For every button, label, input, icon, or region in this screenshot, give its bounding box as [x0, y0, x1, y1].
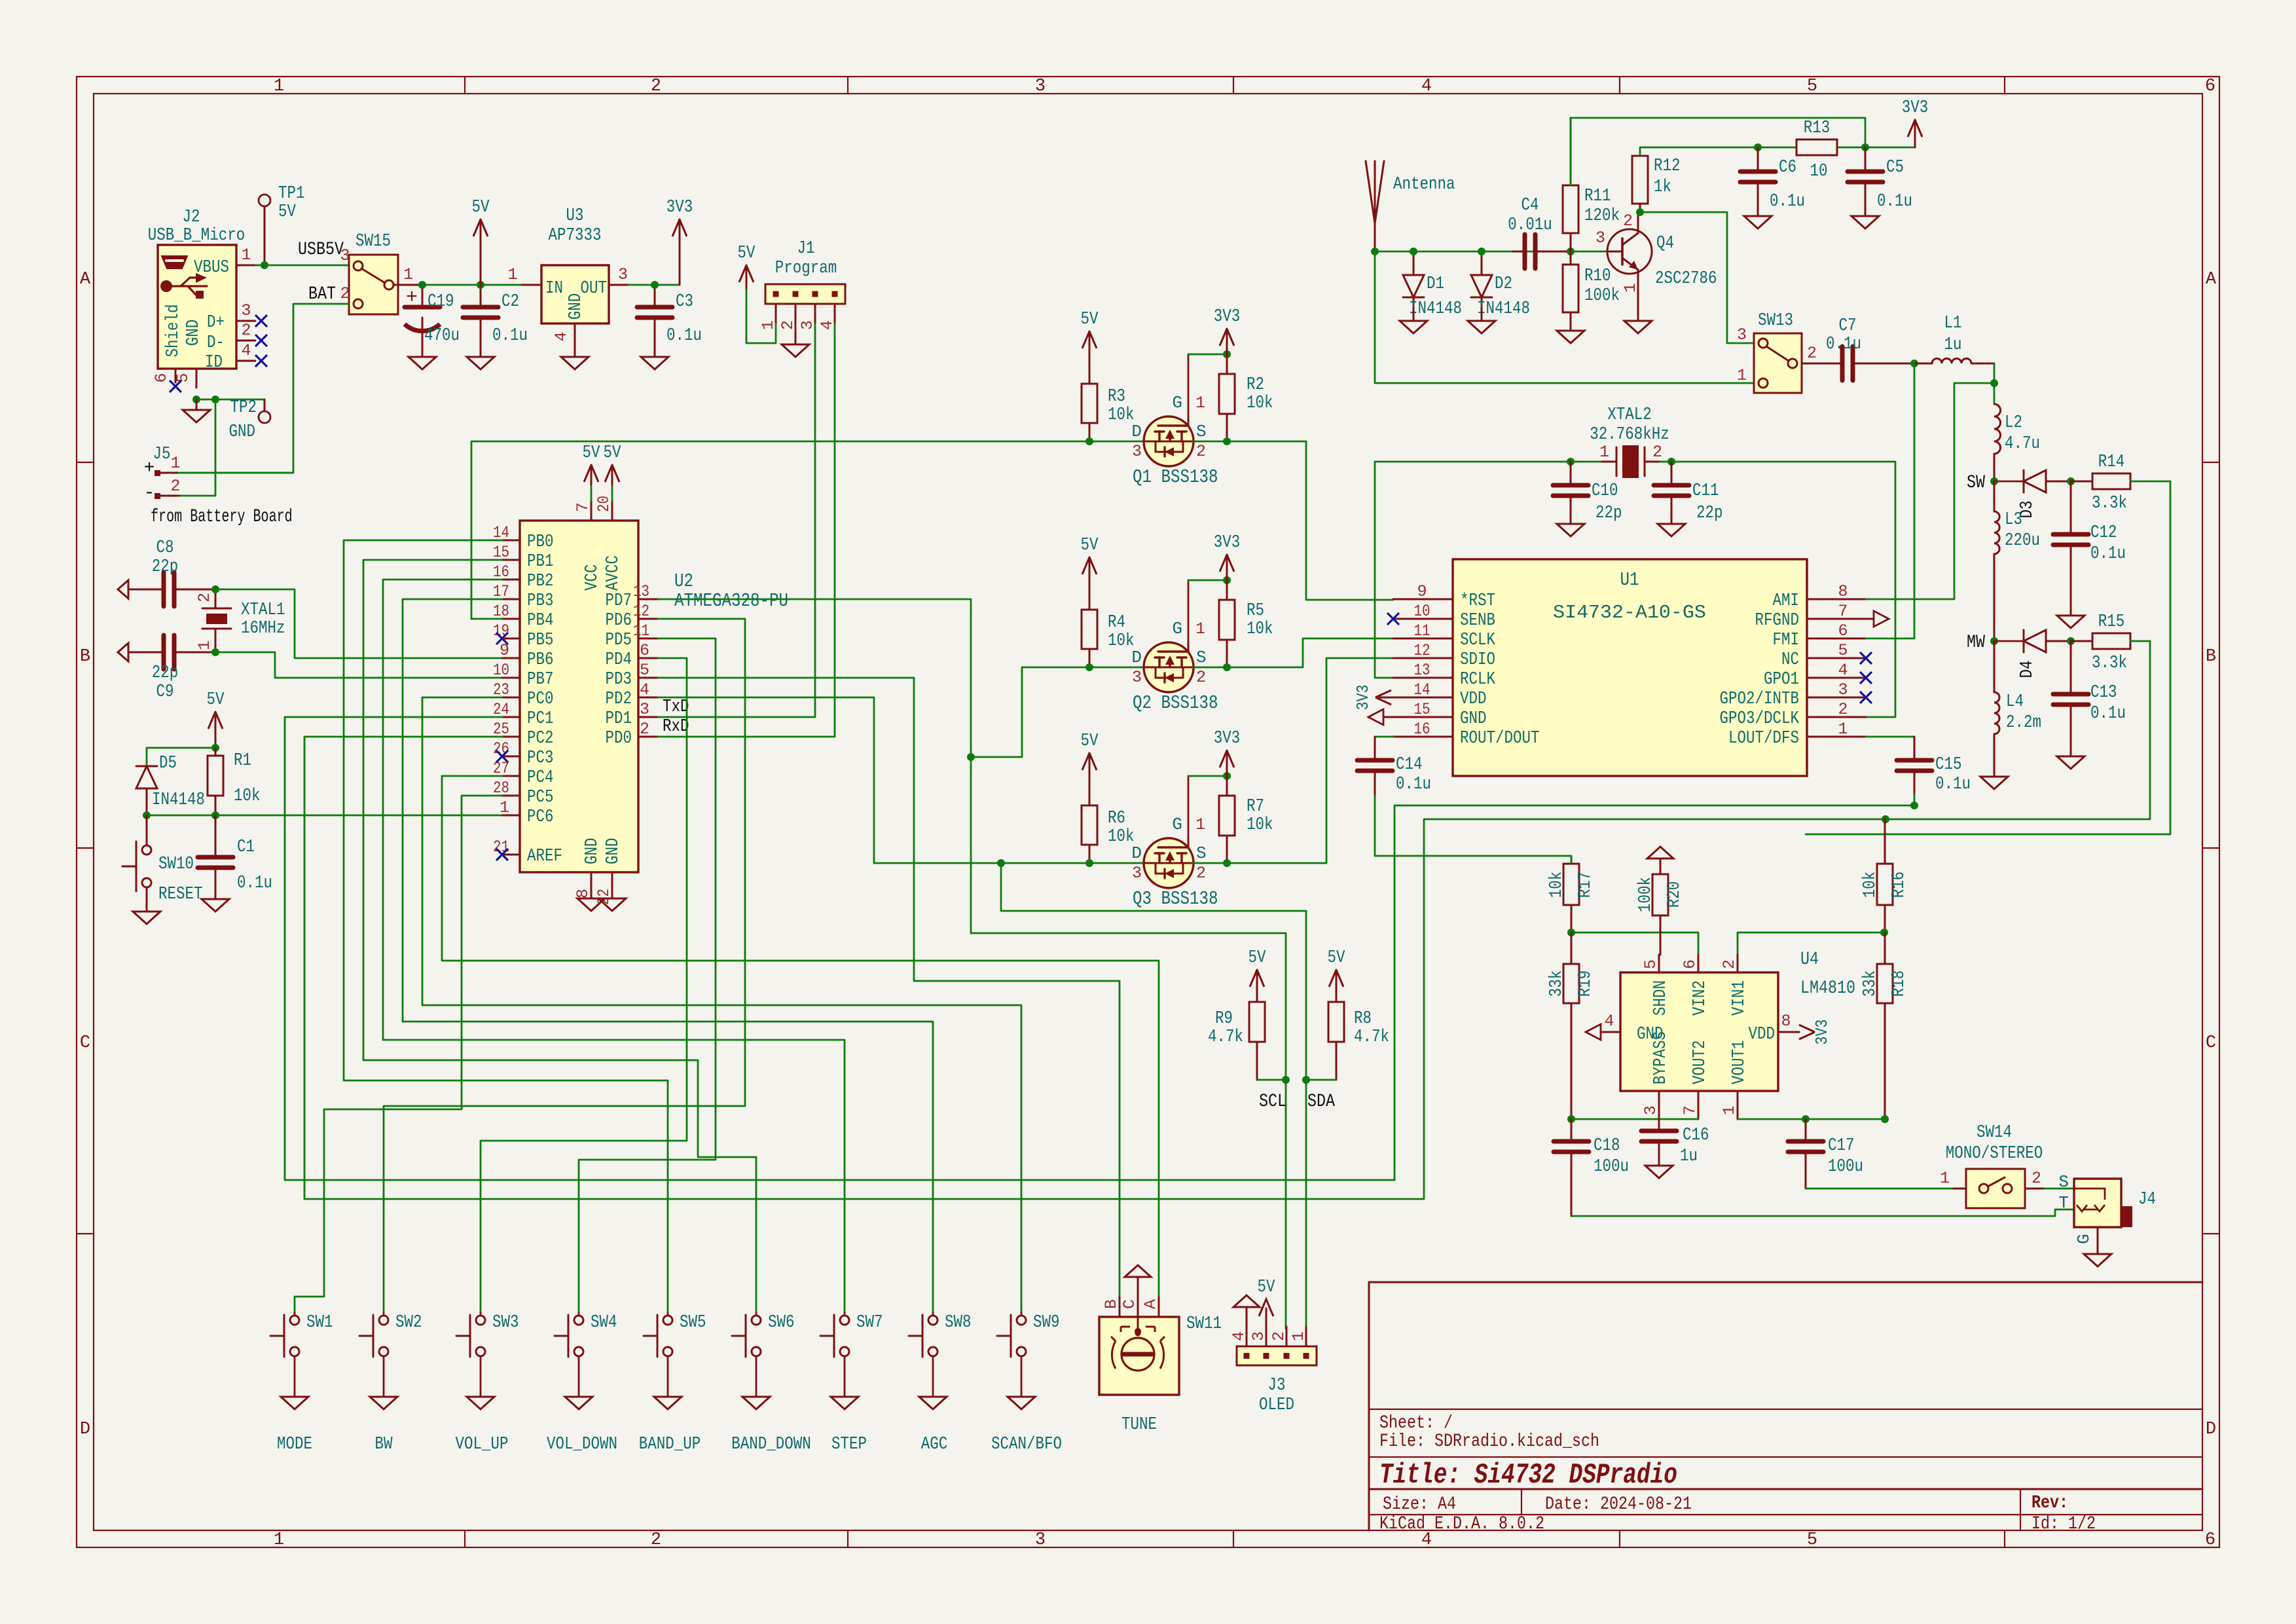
svg-text:G: G	[1172, 815, 1182, 834]
svg-text:-: -	[144, 483, 155, 504]
push button SW3	[456, 1335, 470, 1337]
wire Q3 drain rail	[874, 862, 1144, 864]
svg-text:3: 3	[640, 700, 649, 719]
U2 right pins	[638, 599, 658, 600]
svg-text:D2: D2	[1495, 274, 1512, 294]
ground under C13	[2070, 756, 2072, 758]
test point TP2	[259, 411, 270, 423]
junction at C15 bottom	[1910, 802, 1918, 809]
wire U2 PC2 to R16 line	[304, 737, 1886, 1199]
svg-text:7: 7	[1838, 602, 1848, 621]
wire XTAL1 pin2 to U2 PB6	[215, 589, 502, 658]
svg-text:4: 4	[640, 680, 649, 699]
svg-text:3V3: 3V3	[1214, 533, 1241, 553]
push button SW8	[909, 1335, 922, 1337]
wire U2 PD6 to SW2	[384, 619, 745, 1312]
svg-text:C7: C7	[1839, 316, 1857, 336]
U4 GND pin with flag	[1601, 1031, 1620, 1033]
capacitor C7	[1821, 363, 1842, 365]
wire U2 PC1 to audio L line	[285, 717, 1914, 1180]
svg-text:BW: BW	[375, 1435, 393, 1454]
svg-text:SW4: SW4	[591, 1313, 617, 1333]
svg-text:3.3k: 3.3k	[2092, 654, 2127, 673]
svg-text:G: G	[1172, 619, 1182, 638]
svg-text:C11: C11	[1692, 481, 1719, 501]
svg-text:2: 2	[1196, 668, 1206, 687]
svg-text:RCLK: RCLK	[1460, 670, 1496, 690]
wire BYPASS/VOUT2 node	[1571, 1118, 1698, 1120]
junction at R19/C18	[1567, 1115, 1575, 1123]
wire U2 PB4 to Q1 drain	[471, 618, 502, 620]
diode D5	[136, 766, 157, 767]
svg-text:8: 8	[1838, 582, 1848, 601]
svg-text:SDA: SDA	[1307, 1092, 1335, 1112]
svg-text:6: 6	[152, 373, 171, 382]
junction at D1	[1410, 248, 1417, 255]
svg-text:GND: GND	[566, 293, 586, 320]
wire FMI to C7/L1 junction	[1866, 363, 1914, 638]
svg-text:12: 12	[1414, 641, 1430, 660]
wire U2 PB2 to SW7	[383, 580, 845, 1312]
wire J5 pin1 riser	[179, 472, 293, 474]
wire into SW4	[578, 1312, 580, 1316]
ground under C5	[1865, 196, 1867, 216]
svg-text:XTAL2: XTAL2	[1607, 405, 1652, 425]
wire R14 to audio line	[1806, 481, 2170, 834]
wire VCC up	[591, 485, 592, 501]
wire reset net to U2 PC6	[147, 815, 502, 817]
svg-text:1: 1	[170, 454, 180, 473]
svg-text:J5: J5	[153, 445, 171, 464]
svg-text:1: 1	[1621, 283, 1640, 293]
svg-text:3.3k: 3.3k	[2092, 494, 2127, 513]
svg-text:C18: C18	[1594, 1136, 1620, 1156]
ground under SW4	[578, 1396, 580, 1398]
capacitor C18	[1571, 1119, 1573, 1141]
capacitor C17	[1805, 1119, 1807, 1141]
svg-text:A: A	[2206, 270, 2217, 289]
svg-text:C8: C8	[156, 538, 174, 558]
svg-text:PC2: PC2	[527, 729, 554, 748]
svg-text:S: S	[1196, 843, 1207, 863]
ground under C6	[1757, 196, 1759, 216]
svg-text:5V: 5V	[1081, 310, 1099, 329]
svg-text:ID: ID	[205, 353, 223, 373]
svg-text:J1: J1	[797, 239, 815, 259]
svg-text:PC0: PC0	[527, 690, 554, 709]
svg-text:R13: R13	[1804, 119, 1831, 138]
wire SW5 to ground	[667, 1356, 669, 1397]
wire SW15 pin1 to U3 IN	[422, 284, 522, 286]
power 5V at reset	[215, 712, 217, 748]
svg-text:10: 10	[493, 661, 509, 680]
svg-text:0.1u: 0.1u	[666, 326, 702, 346]
no-connect X at GPO2	[1860, 692, 1872, 703]
svg-text:10k: 10k	[1108, 827, 1135, 847]
svg-text:U2: U2	[674, 570, 693, 592]
wire Q4 collector to SW13 pin3	[1640, 212, 1754, 343]
svg-text:L3: L3	[2005, 510, 2022, 530]
svg-text:J4: J4	[2138, 1190, 2156, 1209]
svg-text:3: 3	[1035, 77, 1046, 96]
svg-text:VIN2: VIN2	[1690, 980, 1710, 1016]
no-connect X at NC	[1860, 652, 1872, 664]
wire R12 top rail	[1640, 147, 1865, 156]
svg-text:6: 6	[1681, 959, 1700, 969]
svg-text:2: 2	[640, 720, 649, 739]
svg-text:FMI: FMI	[1773, 631, 1800, 650]
wire Q2 gate to R5	[1188, 580, 1227, 581]
capacitor C16	[1658, 1119, 1660, 1131]
svg-text:VOUT1: VOUT1	[1730, 1041, 1749, 1085]
svg-text:1k: 1k	[1654, 177, 1671, 197]
svg-text:5V: 5V	[472, 198, 490, 217]
ground under J1 pin2	[795, 333, 797, 344]
svg-text:100u: 100u	[1828, 1157, 1863, 1177]
svg-text:3V3: 3V3	[1214, 307, 1241, 327]
wire R15 to R16 line	[1886, 641, 2150, 819]
svg-text:5V: 5V	[604, 443, 622, 463]
svg-text:A: A	[80, 270, 91, 289]
U4 bottom pins	[1658, 1091, 1660, 1119]
junction at SW tap	[1990, 477, 1998, 485]
svg-text:33k: 33k	[1861, 970, 1880, 997]
svg-text:1: 1	[274, 1530, 284, 1550]
svg-text:1: 1	[274, 77, 284, 96]
junction at R2 top	[1223, 350, 1231, 358]
svg-text:1: 1	[1289, 1331, 1308, 1341]
junction at Q1 source	[1223, 437, 1231, 445]
svg-text:0.1u: 0.1u	[492, 326, 528, 346]
capacitor C10	[1570, 462, 1572, 485]
wire SW6 to ground	[756, 1356, 757, 1397]
svg-text:C12: C12	[2090, 523, 2117, 543]
svg-text:Q2 BSS138: Q2 BSS138	[1133, 692, 1218, 714]
svg-text:2: 2	[1196, 442, 1206, 461]
open end flag C8	[118, 580, 128, 599]
wire AVCC up	[611, 485, 613, 501]
wire XTAL2 pin1 rail	[1375, 461, 1601, 463]
svg-text:GPO2/INTB: GPO2/INTB	[1720, 690, 1800, 709]
ground under D2	[1481, 308, 1483, 321]
svg-text:PD0: PD0	[606, 729, 632, 748]
svg-text:6: 6	[640, 641, 649, 660]
svg-text:BAT: BAT	[308, 284, 336, 304]
junction at D2	[1478, 248, 1485, 255]
svg-text:R15: R15	[2098, 612, 2125, 632]
junction at R6 bottom	[1085, 859, 1093, 867]
svg-text:R19: R19	[1576, 970, 1595, 997]
ground under C12	[2070, 615, 2072, 617]
svg-text:PB6: PB6	[527, 650, 554, 670]
svg-text:10k: 10k	[1247, 619, 1273, 639]
svg-text:R17: R17	[1576, 872, 1595, 898]
svg-text:7: 7	[1681, 1105, 1700, 1115]
capacitor C6	[1757, 147, 1759, 172]
ground under SW6	[756, 1396, 757, 1398]
svg-text:11: 11	[1414, 621, 1430, 640]
svg-text:C17: C17	[1828, 1136, 1855, 1156]
svg-text:C: C	[1120, 1299, 1139, 1309]
svg-text:Sheet: /: Sheet: /	[1379, 1413, 1453, 1433]
svg-text:0.1u: 0.1u	[2090, 704, 2126, 724]
no-connect X at AREF	[496, 849, 508, 860]
wire Q3 drain to SDA	[1001, 863, 1306, 1329]
wire U2 PD5 to SW4	[579, 638, 716, 1312]
svg-text:U3: U3	[566, 206, 584, 226]
svg-text:SW: SW	[1967, 473, 1985, 493]
svg-text:15: 15	[1414, 700, 1430, 719]
svg-text:IN4148: IN4148	[1409, 299, 1462, 319]
svg-text:R20: R20	[1665, 881, 1685, 908]
svg-text:TUNE: TUNE	[1121, 1415, 1157, 1435]
svg-text:AREF: AREF	[527, 847, 562, 866]
svg-text:100k: 100k	[1636, 877, 1656, 912]
svg-text:0.1u: 0.1u	[1826, 335, 1861, 354]
battery connector J5	[159, 472, 179, 474]
U2 ground pins	[591, 872, 592, 892]
svg-text:D: D	[1131, 843, 1142, 863]
junction at R3 bottom	[1085, 437, 1093, 445]
svg-text:D: D	[1131, 422, 1142, 441]
resistor R16	[1884, 819, 1886, 864]
junction at R7 top	[1223, 772, 1231, 780]
resistor R17	[1571, 905, 1573, 932]
svg-text:3: 3	[1737, 325, 1747, 344]
svg-text:3: 3	[241, 301, 251, 320]
svg-text:GPO1: GPO1	[1764, 670, 1799, 690]
svg-text:GND: GND	[1460, 709, 1487, 729]
ground under SW2	[383, 1396, 385, 1398]
push button SW9	[997, 1335, 1011, 1337]
junction at Q3 drain	[997, 859, 1005, 867]
svg-text:Date: 2024-08-21: Date: 2024-08-21	[1545, 1494, 1692, 1515]
svg-text:T: T	[2058, 1193, 2069, 1213]
diode D2	[1481, 251, 1483, 275]
svg-text:PB5: PB5	[527, 631, 554, 650]
svg-text:PC3: PC3	[527, 748, 554, 768]
junction on SDA	[1302, 1076, 1310, 1084]
wire U2 PD4 to SW3	[481, 658, 687, 1312]
wire into SW1	[294, 1312, 296, 1316]
svg-text:R2: R2	[1247, 375, 1264, 395]
junction at D3/C12	[2067, 477, 2075, 485]
wire into SW7	[844, 1312, 846, 1316]
svg-text:RESET: RESET	[158, 885, 203, 904]
ground under SW1	[294, 1396, 296, 1398]
svg-text:L4: L4	[2006, 692, 2024, 712]
svg-text:SW1: SW1	[306, 1313, 333, 1333]
svg-text:2: 2	[651, 1530, 661, 1550]
svg-text:2: 2	[195, 593, 214, 602]
svg-text:100u: 100u	[1594, 1157, 1629, 1177]
svg-text:R18: R18	[1889, 970, 1909, 997]
svg-text:5V: 5V	[1258, 1278, 1276, 1297]
power 3V3 at R5	[1226, 555, 1228, 580]
svg-text:G: G	[1172, 393, 1182, 413]
ground under C10	[1570, 523, 1572, 525]
svg-text:PC5: PC5	[527, 788, 554, 807]
svg-text:L2: L2	[2005, 413, 2022, 433]
connector J3 OLED	[1237, 1346, 1317, 1365]
svg-text:AP7333: AP7333	[549, 226, 602, 246]
ground under Q4	[1637, 295, 1639, 321]
ground flag at U1 GND	[1383, 716, 1393, 718]
svg-text:3V3: 3V3	[1812, 1020, 1832, 1045]
svg-text:SW6: SW6	[768, 1313, 795, 1333]
no-connect X at GPO1	[1860, 672, 1872, 684]
resistor R12	[1639, 204, 1641, 212]
svg-text:D1: D1	[1427, 274, 1444, 294]
wire into SW8	[932, 1312, 934, 1316]
svg-text:SW7: SW7	[856, 1313, 883, 1333]
svg-text:4: 4	[1230, 1331, 1248, 1341]
svg-text:120k: 120k	[1584, 206, 1620, 226]
resistor R5	[1226, 580, 1228, 600]
power 5V at U2 VCC	[591, 465, 592, 485]
wire Q3 gate	[1188, 776, 1190, 838]
svg-text:C: C	[80, 1033, 90, 1053]
svg-text:7: 7	[574, 502, 592, 512]
svg-text:4.7u: 4.7u	[2005, 434, 2040, 454]
svg-text:VIN1: VIN1	[1730, 980, 1749, 1016]
svg-text:Rev:: Rev:	[2032, 1493, 2068, 1513]
svg-text:0.1u: 0.1u	[237, 874, 272, 893]
svg-text:9: 9	[1417, 582, 1427, 601]
resistor R4	[1089, 649, 1091, 667]
wire C18 to J4 tip	[1571, 1209, 2074, 1216]
ground under C19	[422, 332, 424, 357]
svg-text:R4: R4	[1108, 613, 1125, 633]
svg-text:1: 1	[1838, 720, 1848, 739]
capacitor C11	[1671, 462, 1673, 485]
junction at C11	[1667, 458, 1675, 466]
capacitor C4	[1513, 251, 1525, 253]
svg-text:J2: J2	[183, 208, 200, 227]
svg-text:STEP: STEP	[831, 1435, 867, 1454]
ground under L4	[1994, 776, 1995, 778]
wire Q2 source	[1193, 638, 1393, 667]
svg-text:C3: C3	[676, 292, 693, 312]
push button SW4	[555, 1335, 568, 1337]
ground flag above SW11 common	[1137, 1277, 1139, 1297]
svg-text:12: 12	[633, 602, 649, 621]
no-connect X at PC3	[496, 750, 508, 762]
svg-text:0.1u: 0.1u	[2090, 544, 2126, 564]
svg-text:U1: U1	[1620, 569, 1639, 591]
svg-text:PB2: PB2	[527, 572, 554, 591]
ground under SW5	[667, 1396, 669, 1398]
wire Q1 source	[1193, 441, 1393, 600]
svg-text:3: 3	[1249, 1331, 1268, 1341]
junction at R18 bottom	[1881, 1115, 1889, 1123]
wire AMI to L1/L2 junction	[1866, 383, 1994, 599]
svg-text:PD7: PD7	[606, 591, 632, 611]
svg-text:3: 3	[1132, 864, 1142, 883]
svg-text:3V3: 3V3	[1353, 685, 1373, 710]
svg-text:SW8: SW8	[945, 1313, 972, 1333]
capacitor C3	[654, 285, 656, 307]
push button SW5	[644, 1335, 657, 1337]
junction at PD7/Q2 drain	[967, 753, 975, 761]
svg-text:PB4: PB4	[527, 611, 554, 631]
svg-text:5: 5	[1807, 77, 1817, 96]
svg-text:Antenna: Antenna	[1393, 175, 1455, 194]
svg-text:C: C	[2206, 1033, 2216, 1053]
svg-text:4: 4	[1838, 661, 1848, 680]
svg-text:ROUT/DOUT: ROUT/DOUT	[1460, 729, 1540, 748]
wire R17 top	[1571, 856, 1573, 864]
wire into SW9	[1021, 1312, 1023, 1316]
svg-text:TP1: TP1	[278, 184, 305, 204]
svg-text:Shield: Shield	[164, 304, 183, 358]
wire R8 to SDA	[1306, 1079, 1336, 1081]
svg-text:22p: 22p	[152, 557, 179, 577]
capacitor C15	[1914, 737, 1916, 760]
svg-text:20: 20	[594, 496, 613, 512]
svg-text:10k: 10k	[1108, 405, 1135, 425]
wire L1 to L2	[1994, 363, 1995, 404]
svg-text:D: D	[1131, 648, 1142, 667]
no-connect X on J2 shield	[170, 380, 181, 392]
svg-text:2: 2	[2032, 1169, 2041, 1188]
svg-text:R10: R10	[1584, 267, 1611, 286]
wire SW9 to ground	[1021, 1356, 1023, 1397]
svg-text:3: 3	[340, 246, 350, 265]
inductor L3	[1994, 481, 1995, 511]
svg-text:R3: R3	[1108, 387, 1125, 407]
transistor Q2 BSS138	[1144, 642, 1194, 692]
svg-text:470u: 470u	[424, 326, 460, 346]
svg-text:R14: R14	[2098, 452, 2125, 472]
push button SW2	[359, 1335, 373, 1337]
wire R9 to SCL	[1257, 1079, 1286, 1081]
svg-text:1: 1	[1737, 366, 1747, 385]
svg-text:0.1u: 0.1u	[1877, 192, 1912, 212]
svg-text:100k: 100k	[1584, 286, 1620, 306]
junction at C3	[651, 281, 659, 289]
svg-text:D-: D-	[207, 333, 225, 353]
svg-text:22p: 22p	[1696, 504, 1723, 523]
svg-text:6: 6	[2205, 77, 2215, 96]
ground under J2	[196, 399, 198, 410]
svg-text:C10: C10	[1592, 481, 1618, 501]
switch SW14 MONO/STEREO	[1966, 1169, 2025, 1208]
power 3V3 at R7	[1226, 750, 1228, 776]
svg-text:3: 3	[1838, 680, 1848, 699]
svg-text:2: 2	[1652, 443, 1662, 462]
svg-text:SCAN/BFO: SCAN/BFO	[991, 1435, 1062, 1454]
capacitor C19	[422, 286, 424, 307]
wire J2 GND to TP2	[196, 399, 264, 401]
svg-text:PC1: PC1	[527, 709, 554, 729]
svg-text:10: 10	[1414, 602, 1430, 621]
svg-text:VOL_DOWN: VOL_DOWN	[547, 1435, 617, 1454]
resistor R15	[2071, 640, 2092, 642]
junction at J2 GND pin	[192, 396, 200, 403]
resistor R9	[1256, 1042, 1258, 1080]
svg-text:PC4: PC4	[527, 768, 554, 788]
svg-text:GND: GND	[229, 422, 256, 442]
svg-text:PD6: PD6	[606, 611, 632, 631]
svg-text:3: 3	[1132, 442, 1142, 461]
junction on SCL	[1282, 1076, 1290, 1084]
capacitor C12	[2070, 481, 2072, 534]
junction at MW tap	[1990, 637, 1998, 645]
svg-text:IN: IN	[545, 279, 563, 299]
wire ROUT to C14	[1375, 736, 1393, 738]
wire antenna to SW13 pin1	[1375, 251, 1754, 383]
